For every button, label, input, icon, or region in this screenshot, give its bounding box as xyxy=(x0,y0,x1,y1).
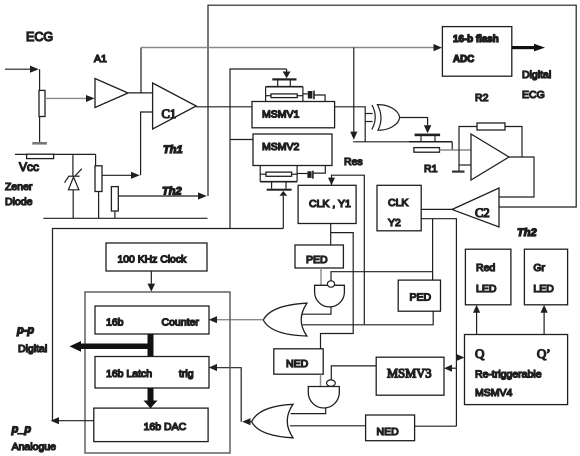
wire to MSMV2 input xyxy=(230,139,253,141)
wire Y2 branch to PED xyxy=(432,219,434,280)
svg-text:16b Latch: 16b Latch xyxy=(106,368,152,380)
wire C1 lower input from Th1 xyxy=(141,112,153,175)
wire MSMV1 output xyxy=(335,107,366,142)
svg-text:Zener: Zener xyxy=(5,181,33,193)
NAND gate G1 xyxy=(315,285,345,307)
svg-text:ADC: ADC xyxy=(453,54,474,65)
wire XOR output to R1 xyxy=(399,118,427,126)
wire R1 output to op-amp xyxy=(440,149,472,151)
wire C1 output to MSMV1 xyxy=(196,106,252,108)
svg-text:Y2: Y2 xyxy=(388,217,401,229)
CLK Y2 xyxy=(377,185,421,231)
wire ground rail (divider) xyxy=(43,217,207,219)
wire stub xyxy=(95,155,97,166)
wire cap to MSMV1 xyxy=(314,95,325,102)
wire to 16-b flash ADC xyxy=(141,47,434,49)
wire xyxy=(98,192,100,219)
Gr LED xyxy=(524,249,567,305)
wire xyxy=(39,117,41,143)
ground (op-amp input) xyxy=(452,171,465,173)
svg-text:C2: C2 xyxy=(475,206,490,220)
svg-text:16-b flash: 16-b flash xyxy=(453,34,499,45)
wire into MSMV4 xyxy=(455,357,457,359)
svg-text:MSMV1: MSMV1 xyxy=(262,109,300,121)
svg-text:Analogue: Analogue xyxy=(12,441,57,453)
block enclosure xyxy=(85,292,230,453)
16b Latch xyxy=(95,357,209,389)
resistor (in transistor glyph) xyxy=(271,94,297,98)
wire Res net xyxy=(332,175,365,325)
node ECG input arrow xyxy=(5,68,31,70)
wire MSMV3 to NAND2 bubble xyxy=(331,366,376,380)
wire NED2 out to OR2 xyxy=(290,425,366,427)
wire digital ECG out (thick) xyxy=(512,46,534,49)
MSMV4 (re-triggerable) xyxy=(465,335,568,405)
comparator C2 xyxy=(452,188,499,227)
wire Y2 output xyxy=(421,219,456,427)
svg-text:LED: LED xyxy=(476,283,497,295)
wire clock to counter block xyxy=(150,271,152,284)
svg-text:PED: PED xyxy=(410,292,432,304)
wire PED2 out to OR1 xyxy=(303,311,434,325)
resistor (input potentiometer) xyxy=(39,90,45,116)
op-amp A2 xyxy=(471,134,509,180)
svg-text:Digital: Digital xyxy=(522,69,551,81)
svg-text:Re-triggerable: Re-triggerable xyxy=(475,369,542,381)
svg-text:Q’: Q’ xyxy=(537,346,551,361)
OR gate G4 xyxy=(252,404,293,438)
wire feedback left xyxy=(459,127,477,172)
svg-text:NED: NED xyxy=(286,358,309,370)
wire NAND1 out to OR1 xyxy=(302,307,331,314)
MSMV1 xyxy=(252,102,335,128)
wire Q' to Gr LED xyxy=(543,313,545,335)
wire NED1 out xyxy=(320,374,322,387)
16b Counter xyxy=(95,306,209,334)
svg-text:CLK , Y1: CLK , Y1 xyxy=(309,198,351,210)
wire lower input xyxy=(459,164,471,166)
NED (edge detector 2) xyxy=(366,415,415,441)
wire op-amp output to C2 xyxy=(499,157,534,197)
svg-text:ECG: ECG xyxy=(522,89,545,101)
wire into MSMV3 xyxy=(452,367,456,369)
svg-text:Q: Q xyxy=(475,346,485,361)
wire XOR input 1 xyxy=(365,113,372,115)
wire PED1 out xyxy=(320,268,322,286)
power rail Vcc xyxy=(15,153,96,155)
wire latch to DAC (thick) xyxy=(148,388,154,401)
svg-text:100 KHz Clock: 100 KHz Clock xyxy=(118,255,188,266)
XOR gate U1 xyxy=(372,105,400,131)
svg-text:Red: Red xyxy=(476,262,495,274)
16-b flash ADC xyxy=(442,27,511,77)
PED (edge detector 1) xyxy=(295,245,343,268)
wire xyxy=(72,155,74,176)
wire XOR input 2 xyxy=(365,121,372,123)
resistor R1 xyxy=(414,148,440,153)
wire OR1 out to counter xyxy=(217,319,263,321)
svg-text:Th2: Th2 xyxy=(162,186,182,198)
wire p-p digital out (thick) xyxy=(148,334,154,357)
svg-text:p-p: p-p xyxy=(16,325,34,337)
svg-text:NED: NED xyxy=(377,426,400,438)
OR gate G2 xyxy=(263,303,307,336)
capacitor C (MSMV2 timing) xyxy=(307,171,311,178)
100 KHz Clock xyxy=(106,243,207,271)
svg-text:ECG: ECG xyxy=(26,30,53,44)
svg-text:p_p: p_p xyxy=(11,424,32,436)
MSMV3 xyxy=(376,357,444,395)
svg-text:MSMV2: MSMV2 xyxy=(262,141,300,153)
wire Q to Red LED xyxy=(476,313,478,335)
wire cap to MSMV2 xyxy=(314,166,326,174)
capacitor C (MSMV1 timing) xyxy=(308,91,313,99)
resistor R2 (feedback) xyxy=(477,123,505,130)
wire xyxy=(114,211,116,218)
NAND gate G3 xyxy=(308,387,339,409)
svg-text:trig: trig xyxy=(179,368,194,380)
svg-text:16b DAC: 16b DAC xyxy=(144,421,187,433)
ground xyxy=(32,142,47,145)
16b DAC xyxy=(94,408,208,442)
wire OR2 out to latch trig xyxy=(246,421,252,423)
svg-text:Th1: Th1 xyxy=(163,144,183,156)
wire branch up to ADC line xyxy=(140,48,142,93)
transistor Q2 (below MSMV2) xyxy=(260,166,307,191)
wire branch down to R1 gate xyxy=(353,48,355,132)
wire Th2 from divider xyxy=(118,195,198,197)
svg-text:LED: LED xyxy=(533,283,554,295)
Red LED xyxy=(465,249,511,305)
svg-text:A1: A1 xyxy=(94,53,107,65)
NED (edge detector 1) xyxy=(274,349,323,374)
wire Y1 to NED xyxy=(321,233,354,349)
wire tap to A1 xyxy=(45,97,86,99)
resistor (divider lower) xyxy=(111,187,118,211)
svg-text:MSMV3: MSMV3 xyxy=(387,367,431,381)
wire feedback right xyxy=(505,127,522,158)
svg-text:Vcc: Vcc xyxy=(19,160,39,174)
wire xyxy=(39,69,41,90)
wire Y2 to NAND bubble xyxy=(331,272,433,281)
svg-text:16b: 16b xyxy=(106,317,124,329)
svg-text:CLK: CLK xyxy=(388,197,408,209)
resistor on Vcc rail xyxy=(27,154,54,158)
CLK Y1 xyxy=(298,185,356,223)
wire Th2 feedback loop: left riser, top run, right riser to C2 input xyxy=(208,5,576,207)
resistor (in transistor glyph below MSMV2) xyxy=(266,172,292,176)
wire trigger arrow up into Q2 xyxy=(282,196,284,229)
svg-text:Res: Res xyxy=(344,156,363,168)
wire A1 output to C1 xyxy=(128,92,153,94)
svg-text:MSMV4: MSMV4 xyxy=(475,387,513,399)
wire Y1 to PED xyxy=(330,224,332,246)
svg-text:Digital: Digital xyxy=(18,343,47,355)
wire NED2 right to Y2 riser xyxy=(415,425,457,427)
PED (edge detector 2) xyxy=(398,280,440,311)
svg-text:Th2: Th2 xyxy=(517,227,537,239)
svg-text:R1: R1 xyxy=(424,163,438,175)
transistor Q1 (above MSMV1) xyxy=(266,78,308,101)
wire C2 output to CLK Y2 xyxy=(421,208,452,210)
wire trigger riser xyxy=(230,69,287,229)
svg-text:Counter: Counter xyxy=(162,317,200,329)
wire Th1 xyxy=(102,174,132,176)
resistor (divider upper) xyxy=(95,166,102,192)
svg-text:R2: R2 xyxy=(475,92,489,104)
svg-text:PED: PED xyxy=(306,254,328,266)
svg-text:Diode: Diode xyxy=(5,196,33,208)
zener diode D1 xyxy=(65,169,82,219)
transistor R1 glyph xyxy=(409,134,452,150)
comparator C1 xyxy=(153,83,197,129)
wire NAND2 out to OR2 xyxy=(291,408,326,414)
svg-text:Gr: Gr xyxy=(533,262,545,274)
wire gate line to R1 xyxy=(353,141,409,143)
wire arrow into MSMV1 transistor xyxy=(286,69,288,72)
wire DAC analogue out xyxy=(59,420,94,422)
MSMV2 xyxy=(253,134,332,166)
svg-text:C1: C1 xyxy=(162,107,177,121)
op-amp A1 xyxy=(95,79,128,108)
wire lower rail to DAC feedback xyxy=(53,229,284,421)
